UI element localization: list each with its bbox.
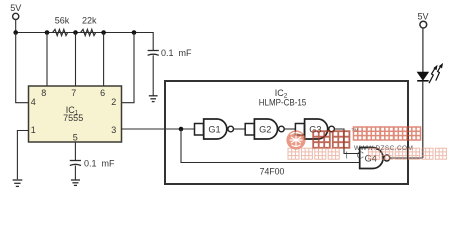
gate G1 input tie (195, 124, 204, 136)
gate G2 input tie (245, 124, 254, 136)
IC2 74F00 package outline box (165, 81, 408, 184)
svg-text:G2: G2 (259, 124, 271, 134)
resistor R1 56k zigzag (53, 29, 68, 35)
nand gate G3 body (305, 119, 328, 139)
wire top supply rail (16, 33, 154, 51)
wire feedback down and right to G4 lower input (181, 129, 360, 163)
nand gate G1 body (204, 119, 227, 139)
capacitor C2 0.1 mF bottom plate (70, 164, 81, 165)
wire G2 output to G3 input (284, 128, 295, 130)
wire pin 4 to 5V column (16, 33, 29, 103)
capacitor C1 0.1 mF bottom plate (148, 54, 159, 55)
wire LED cathode down to G4 output (422, 82, 424, 158)
gate G4 bubble (384, 155, 390, 161)
gate G3 input tie (295, 124, 304, 136)
wire pin 7 to rail (75, 33, 77, 87)
wire C2 bottom to ground (74, 166, 76, 180)
nand gate G4 body (360, 148, 383, 169)
capacitor C2 0.1 mF top plate (70, 160, 81, 162)
LED D1 emission arrow 1 (429, 65, 438, 84)
svg-text:G1: G1 (208, 124, 220, 134)
ground below C2 (71, 180, 80, 185)
wire pin 6 to rail (103, 33, 105, 87)
wire G3 output down to G4 upper input (334, 129, 359, 154)
LED D1 anode triangle (417, 72, 428, 80)
gate G1 bubble (228, 126, 234, 132)
wire pin 3 output to gate G1 input (122, 128, 195, 130)
svg-text:6: 6 (100, 88, 105, 98)
capacitor C1 0.1 mF top plate (148, 50, 159, 52)
svg-text:3: 3 (111, 125, 116, 135)
watermark brand chars (313, 131, 349, 148)
gate G2 bubble (279, 126, 285, 132)
svg-text:5: 5 (73, 133, 78, 143)
wire G4 output to LED column (390, 157, 423, 159)
wire G1 output to G2 input (234, 128, 246, 130)
svg-text:5V: 5V (417, 11, 428, 21)
svg-text:HLMP-CB-15: HLMP-CB-15 (259, 98, 307, 108)
ground below C1 (149, 96, 158, 102)
resistor R2 22k zigzag (81, 29, 96, 35)
wire pin 2 up to rail (122, 33, 135, 103)
wire pin 1 to ground (17, 131, 28, 180)
svg-text:5V: 5V (10, 3, 21, 13)
nand gate G2 body (254, 119, 277, 139)
wire C1 bottom plate to ground (152, 55, 154, 95)
watermark logo stamp (286, 130, 305, 149)
junction node at 5V column (13, 30, 18, 35)
svg-text:G4: G4 (365, 153, 377, 163)
op IC1 7555 timer body (29, 86, 122, 142)
wire 5V right down to LED (422, 28, 424, 72)
LED D1 cathode bar (417, 80, 428, 82)
watermark market chars (354, 127, 421, 140)
junction node at pin 6 column (101, 30, 106, 35)
ground below pin 1 (13, 180, 23, 186)
svg-text:G3: G3 (309, 124, 321, 134)
svg-text:7555: 7555 (63, 113, 83, 123)
svg-text:1: 1 (31, 125, 36, 135)
watermark slogan row (288, 148, 446, 161)
junction node feedback tap (179, 127, 184, 132)
svg-text:22k: 22k (82, 16, 97, 26)
LED D1 emission arrow 2 (436, 63, 443, 81)
gate G3 bubble (329, 126, 335, 132)
svg-text:8: 8 (41, 88, 46, 98)
junction node at pin 2 column (132, 30, 137, 35)
wire pin 5 down to C2 (74, 142, 76, 160)
svg-text:I: I (345, 150, 348, 162)
svg-text:56k: 56k (55, 16, 70, 26)
power +5V supply (left) terminal circle (13, 13, 19, 19)
svg-text:7: 7 (71, 88, 76, 98)
junction node at pin 7 column (73, 30, 78, 35)
wire pin 8 to rail (46, 33, 48, 87)
junction node at pin 8 column (45, 30, 50, 35)
svg-text:C: C (357, 150, 365, 162)
power +5V supply (right) terminal circle (420, 21, 427, 28)
wire 5V circle down to rail (15, 20, 17, 33)
svg-text:4: 4 (31, 97, 36, 107)
svg-text:2: 2 (111, 97, 116, 107)
svg-text:74F00: 74F00 (260, 166, 285, 176)
